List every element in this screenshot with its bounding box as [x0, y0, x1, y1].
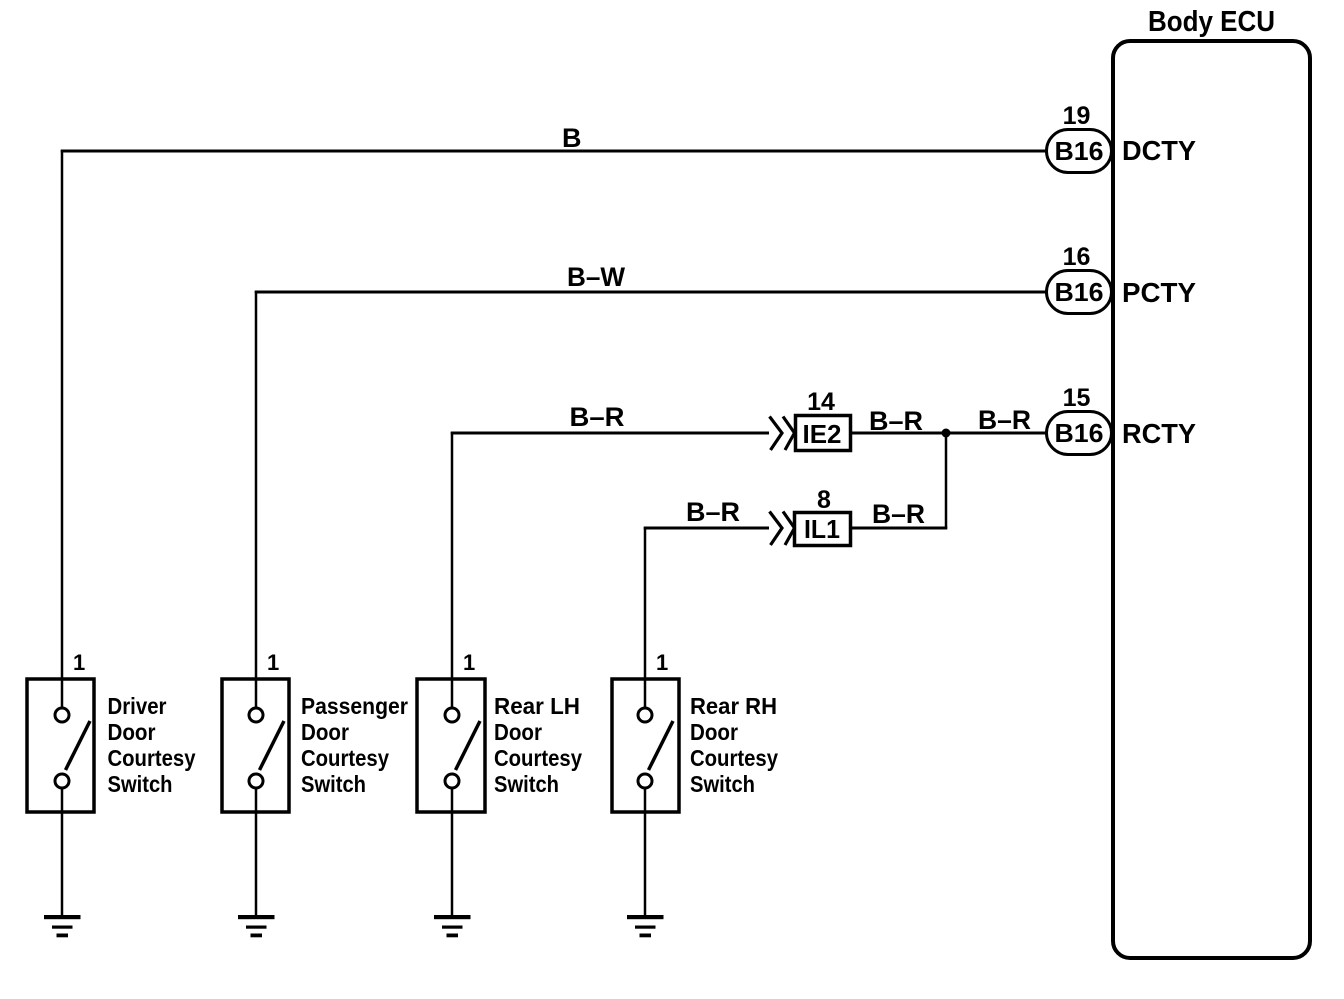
junction dot (node) — [942, 429, 951, 438]
label Rear RH Door Courtesy Switch — [690, 693, 778, 797]
svg-text:Courtesy: Courtesy — [494, 745, 582, 771]
svg-text:Door: Door — [494, 719, 542, 745]
pin label PCTY — [1122, 277, 1196, 308]
switch S2 Passenger Door Courtesy Switch — [222, 679, 289, 812]
svg-text:16: 16 — [1063, 243, 1091, 271]
svg-text:Courtesy: Courtesy — [301, 745, 389, 771]
junction connector IL1 pin 8 — [795, 513, 851, 546]
svg-text:DCTY: DCTY — [1122, 135, 1196, 166]
label B-R (to RCTY) — [978, 405, 1031, 435]
pin number 16 — [1063, 243, 1091, 271]
svg-text:B16: B16 — [1055, 136, 1104, 166]
switch S3 Rear LH Door Courtesy Switch — [417, 679, 485, 812]
svg-text:B: B — [562, 123, 582, 153]
svg-text:Passenger: Passenger — [301, 693, 408, 719]
pin number 19 — [1063, 102, 1091, 130]
svg-text:Courtesy: Courtesy — [690, 745, 778, 771]
label Passenger Door Courtesy Switch — [301, 693, 408, 797]
ground (rear LH switch) — [434, 915, 471, 937]
label Rear LH Door Courtesy Switch — [494, 693, 582, 797]
pin 1 (rear LH switch) — [463, 650, 475, 675]
svg-text:IE2: IE2 — [803, 419, 842, 449]
connector B16 pin 15 (RCTY) — [1047, 412, 1112, 455]
svg-text:B–R: B–R — [686, 497, 740, 527]
ground (passenger switch) — [238, 915, 275, 937]
svg-text:14: 14 — [807, 388, 835, 416]
svg-text:Switch: Switch — [494, 771, 559, 797]
svg-text:IL1: IL1 — [804, 514, 840, 544]
pin 1 (passenger switch) — [267, 650, 279, 675]
Body ECU box U1 — [1113, 6, 1310, 958]
pin label RCTY — [1122, 418, 1196, 449]
svg-text:B–R: B–R — [978, 405, 1031, 435]
label B — [562, 123, 582, 153]
svg-text:Switch: Switch — [108, 771, 173, 797]
svg-text:B16: B16 — [1055, 418, 1104, 448]
pin label DCTY — [1122, 135, 1196, 166]
junction connector IE2 pin 14 — [796, 416, 851, 451]
wire B-W (passenger switch to PCTY pin) — [255, 291, 1047, 708]
svg-text:B–R: B–R — [872, 499, 925, 529]
svg-text:Door: Door — [108, 719, 156, 745]
ground (rear RH switch) — [627, 915, 664, 937]
pin 1 (driver switch) — [73, 650, 85, 675]
connector B16 pin 19 (DCTY) — [1047, 130, 1112, 173]
svg-text:Rear LH: Rear LH — [494, 693, 580, 719]
label B-R (IL1 output) — [872, 499, 925, 529]
svg-text:8: 8 — [817, 486, 831, 514]
svg-text:Door: Door — [690, 719, 738, 745]
junction connector IE2 chevrons — [770, 417, 795, 451]
svg-text:B–W: B–W — [567, 262, 625, 292]
svg-text:1: 1 — [463, 650, 475, 675]
svg-text:RCTY: RCTY — [1122, 418, 1196, 449]
svg-text:1: 1 — [73, 650, 85, 675]
svg-text:Rear RH: Rear RH — [690, 693, 777, 719]
svg-text:B16: B16 — [1055, 277, 1104, 307]
wire B-R (rear RH switch to IL1) — [644, 527, 769, 708]
label Driver Door Courtesy Switch — [108, 693, 196, 797]
wire B-R (IL1 to junction node) — [851, 433, 947, 529]
svg-text:Body ECU: Body ECU — [1148, 6, 1275, 38]
pin number 8 — [817, 486, 831, 514]
switch S4 Rear RH Door Courtesy Switch — [612, 679, 679, 812]
pin number 14 — [807, 388, 835, 416]
svg-text:Driver: Driver — [108, 693, 167, 719]
label B-R (rear RH branch) — [686, 497, 740, 527]
wire (passenger switch to ground) — [255, 788, 258, 915]
pin 1 (rear RH switch) — [656, 650, 668, 675]
connector B16 pin 16 (PCTY) — [1047, 271, 1112, 314]
svg-text:19: 19 — [1063, 102, 1091, 130]
ground (driver switch) — [44, 915, 81, 937]
svg-text:1: 1 — [656, 650, 668, 675]
pin number 15 — [1063, 384, 1091, 412]
wire B-R (junction node to RCTY pin) — [946, 432, 1047, 435]
svg-text:15: 15 — [1063, 384, 1091, 412]
svg-text:B–R: B–R — [869, 406, 923, 436]
switch S1 Driver Door Courtesy Switch — [27, 679, 94, 812]
wire (rear LH switch to ground) — [451, 788, 454, 915]
wire (driver switch to ground) — [61, 788, 64, 915]
svg-text:1: 1 — [267, 650, 279, 675]
wire B (driver switch to DCTY pin) — [61, 150, 1047, 708]
svg-text:Door: Door — [301, 719, 349, 745]
svg-text:Switch: Switch — [690, 771, 755, 797]
label B-R (IE2 output) — [869, 406, 923, 436]
svg-text:Switch: Switch — [301, 771, 366, 797]
wire (rear RH switch to ground) — [644, 788, 647, 915]
svg-text:Courtesy: Courtesy — [108, 745, 196, 771]
wire B-R (rear LH switch to IE2) — [451, 432, 769, 708]
junction connector IL1 chevrons — [770, 512, 795, 546]
svg-text:PCTY: PCTY — [1122, 277, 1196, 308]
label B-W — [567, 262, 625, 292]
svg-text:B–R: B–R — [570, 402, 625, 432]
wire B-R (IE2 to junction node) — [851, 432, 946, 435]
label B-R (rear LH branch) — [570, 402, 625, 432]
